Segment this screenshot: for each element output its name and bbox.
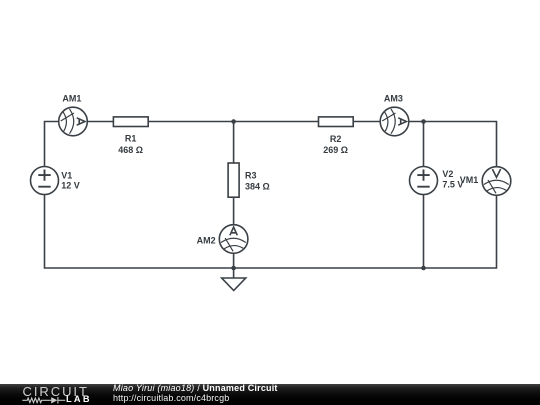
svg-text:AM1: AM1 bbox=[62, 94, 81, 104]
svg-text:384 Ω: 384 Ω bbox=[245, 181, 270, 191]
svg-text:R3: R3 bbox=[245, 171, 257, 181]
svg-text:R2: R2 bbox=[330, 134, 342, 144]
svg-text:V2: V2 bbox=[442, 169, 453, 179]
svg-text:R1: R1 bbox=[125, 134, 137, 144]
svg-text:V1: V1 bbox=[61, 171, 72, 181]
svg-text:VM1: VM1 bbox=[460, 175, 479, 185]
svg-text:AM3: AM3 bbox=[384, 94, 403, 104]
svg-text:12 V: 12 V bbox=[61, 181, 80, 191]
svg-text:468 Ω: 468 Ω bbox=[118, 145, 143, 155]
svg-text:269 Ω: 269 Ω bbox=[323, 145, 348, 155]
svg-text:AM2: AM2 bbox=[197, 235, 216, 245]
